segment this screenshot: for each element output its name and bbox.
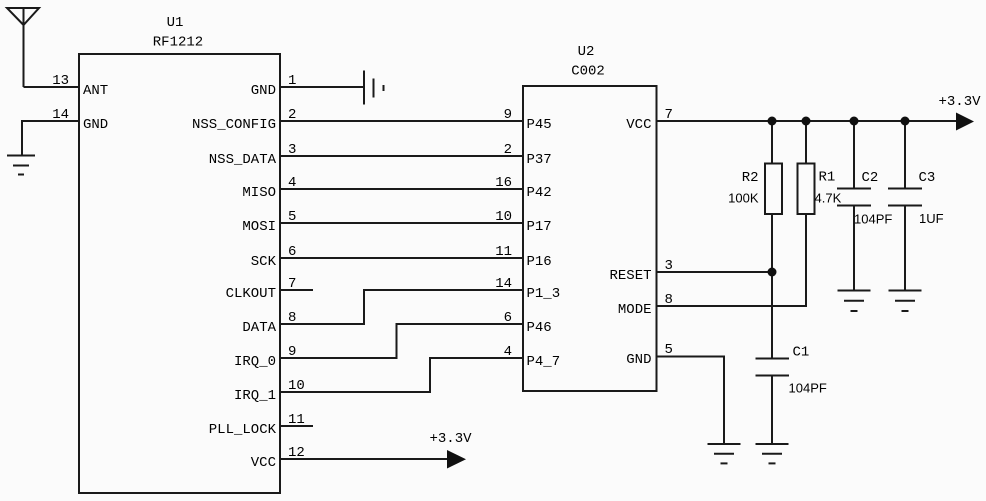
svg-text:MODE: MODE bbox=[618, 302, 652, 318]
svg-text:P45: P45 bbox=[527, 117, 552, 133]
svg-text:ANT: ANT bbox=[83, 83, 108, 99]
svg-text:GND: GND bbox=[83, 117, 108, 133]
svg-text:5: 5 bbox=[288, 209, 296, 225]
svg-text:C2: C2 bbox=[862, 170, 879, 186]
svg-text:GND: GND bbox=[626, 352, 651, 368]
svg-text:C3: C3 bbox=[919, 170, 936, 186]
ground (U1 pin14) bbox=[7, 156, 35, 175]
svg-text:12: 12 bbox=[288, 445, 305, 461]
svg-text:C1: C1 bbox=[793, 345, 810, 361]
svg-text:P16: P16 bbox=[527, 254, 552, 270]
svg-text:P46: P46 bbox=[527, 320, 552, 336]
resistor R2 bbox=[765, 121, 782, 359]
svg-text:IRQ_0: IRQ_0 bbox=[234, 354, 276, 370]
svg-text:11: 11 bbox=[288, 412, 305, 428]
wire U1 pin3 NSS_DATA to U2 P37 bbox=[280, 155, 523, 157]
svg-text:IRQ_1: IRQ_1 bbox=[234, 388, 276, 404]
svg-text:1: 1 bbox=[288, 73, 296, 89]
svg-text:14: 14 bbox=[495, 276, 512, 292]
wire U1 pin10 IRQ_1 to U2 P4_7 bbox=[280, 358, 523, 392]
svg-text:RF1212: RF1212 bbox=[153, 35, 203, 51]
svg-text:7: 7 bbox=[665, 107, 673, 123]
svg-text:C002: C002 bbox=[571, 64, 605, 80]
svg-text:6: 6 bbox=[504, 310, 512, 326]
svg-text:100K: 100K bbox=[728, 191, 759, 206]
wire U1 pin12 VCC to +3.3V bbox=[280, 458, 448, 460]
svg-text:NSS_DATA: NSS_DATA bbox=[209, 152, 277, 168]
junction dot (rail / R2) bbox=[768, 117, 777, 126]
svg-text:104PF: 104PF bbox=[854, 212, 892, 227]
svg-text:2: 2 bbox=[504, 142, 512, 158]
wire U1 pin6 SCK to U2 P16 bbox=[280, 257, 523, 259]
wire U1 pin11 PLL_LOCK stub bbox=[280, 425, 313, 427]
wire U1 pin5 MOSI to U2 P17 bbox=[280, 222, 523, 224]
wire U2 pin8 MODE to R1 bbox=[657, 214, 807, 306]
svg-text:4: 4 bbox=[288, 175, 296, 191]
capacitor C2 bbox=[837, 121, 871, 291]
svg-text:2: 2 bbox=[288, 107, 296, 123]
svg-text:8: 8 bbox=[288, 310, 296, 326]
svg-text:13: 13 bbox=[52, 73, 69, 89]
svg-text:NSS_CONFIG: NSS_CONFIG bbox=[192, 117, 276, 133]
svg-text:14: 14 bbox=[52, 107, 69, 123]
junction dot (rail / R1) bbox=[802, 117, 811, 126]
svg-text:MISO: MISO bbox=[242, 185, 276, 201]
svg-text:1UF: 1UF bbox=[919, 211, 944, 226]
svg-text:16: 16 bbox=[495, 175, 512, 191]
junction dot (rail / C3) bbox=[901, 117, 910, 126]
svg-text:+3.3V: +3.3V bbox=[430, 431, 473, 447]
capacitor C1 bbox=[756, 359, 790, 445]
svg-text:DATA: DATA bbox=[242, 320, 276, 336]
svg-text:4.7K: 4.7K bbox=[815, 191, 842, 206]
IC U2 C002 body bbox=[523, 86, 657, 391]
svg-text:10: 10 bbox=[495, 209, 512, 225]
wire U1 pin4 MISO to U2 P42 bbox=[280, 188, 523, 190]
wire U1 pin9 IRQ_0 to U2 P46 bbox=[280, 324, 523, 358]
svg-text:VCC: VCC bbox=[251, 455, 276, 471]
power arrow +3.3V (U1 pin12) bbox=[447, 450, 466, 469]
wire U2 pin7 VCC rail bbox=[657, 120, 958, 122]
svg-text:3: 3 bbox=[665, 258, 673, 274]
svg-text:11: 11 bbox=[495, 244, 512, 260]
svg-text:U2: U2 bbox=[578, 44, 595, 60]
resistor R1 bbox=[798, 121, 815, 214]
wire U1 pin7 CLKOUT stub bbox=[280, 289, 313, 291]
svg-text:CLKOUT: CLKOUT bbox=[226, 286, 276, 302]
svg-text:SCK: SCK bbox=[251, 254, 277, 270]
ground (C2) bbox=[838, 291, 871, 312]
ground (U2 pin5) bbox=[708, 444, 741, 463]
svg-text:5: 5 bbox=[665, 342, 673, 358]
IC U1 RF1212 body bbox=[79, 54, 280, 493]
svg-text:9: 9 bbox=[288, 344, 296, 360]
svg-text:R1: R1 bbox=[819, 170, 836, 186]
wire U2 pin3 RESET bbox=[657, 271, 773, 273]
svg-text:P1_3: P1_3 bbox=[527, 286, 561, 302]
ground (C3) bbox=[889, 291, 922, 312]
svg-text:RESET: RESET bbox=[609, 268, 651, 284]
svg-text:7: 7 bbox=[288, 276, 296, 292]
wire U1 pin2 NSS_CONFIG to U2 P45 bbox=[280, 120, 523, 122]
power arrow +3.3V (VCC rail) bbox=[956, 113, 974, 131]
svg-text:6: 6 bbox=[288, 244, 296, 260]
svg-text:GND: GND bbox=[251, 83, 276, 99]
junction dot (RESET / R2) bbox=[768, 268, 777, 277]
junction dot (rail / C2) bbox=[850, 117, 859, 126]
ground (C1) bbox=[756, 444, 789, 463]
svg-text:U1: U1 bbox=[167, 15, 184, 31]
wire U1 pin8 DATA to U2 P1_3 bbox=[280, 290, 523, 324]
svg-text:R2: R2 bbox=[742, 170, 759, 186]
svg-text:9: 9 bbox=[504, 107, 512, 123]
svg-text:P17: P17 bbox=[527, 219, 552, 235]
svg-text:3: 3 bbox=[288, 142, 296, 158]
svg-text:8: 8 bbox=[665, 292, 673, 308]
svg-text:10: 10 bbox=[288, 378, 305, 394]
wire U1 pin14 GND to ground bbox=[22, 121, 79, 156]
antenna ANT1 bbox=[7, 8, 39, 87]
svg-text:104PF: 104PF bbox=[789, 381, 827, 396]
svg-text:4: 4 bbox=[504, 344, 512, 360]
ground (sideways, U1 pin1) bbox=[364, 71, 384, 105]
wire U1 pin1 GND bbox=[280, 86, 364, 88]
svg-text:P42: P42 bbox=[527, 185, 552, 201]
wire antenna to U1 pin13 ANT bbox=[24, 86, 80, 88]
svg-text:P4_7: P4_7 bbox=[527, 354, 561, 370]
svg-text:PLL_LOCK: PLL_LOCK bbox=[209, 422, 277, 438]
svg-text:P37: P37 bbox=[527, 152, 552, 168]
svg-text:+3.3V: +3.3V bbox=[939, 94, 982, 110]
capacitor C3 bbox=[888, 121, 922, 291]
wire U2 pin5 GND to ground bbox=[657, 357, 725, 445]
svg-text:VCC: VCC bbox=[626, 117, 651, 133]
svg-text:MOSI: MOSI bbox=[242, 219, 276, 235]
